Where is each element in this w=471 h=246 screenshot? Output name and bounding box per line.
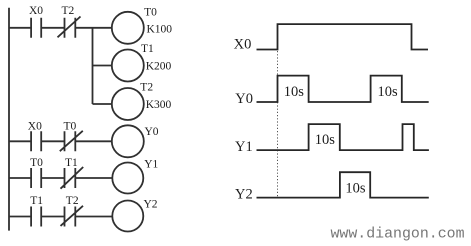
- waveform Y2: [257, 172, 429, 197]
- wire rung1 contact to coil T0: [75, 27, 112, 29]
- svg-text:T1: T1: [30, 195, 43, 207]
- svg-text:T2: T2: [62, 5, 75, 17]
- wire rung3 between contacts: [41, 177, 64, 179]
- timer coil T1: [112, 50, 144, 82]
- svg-text:X0: X0: [28, 120, 42, 132]
- svg-text:X0: X0: [29, 5, 43, 17]
- wire rung2 rail to contact X0: [9, 140, 31, 142]
- svg-text:Y0: Y0: [145, 126, 159, 138]
- svg-text:K100: K100: [147, 24, 173, 36]
- wire branch to coil T2: [93, 103, 112, 105]
- svg-text:Y1: Y1: [144, 159, 158, 171]
- wire rung2 between contacts: [41, 140, 64, 142]
- output coil Y2: [112, 201, 143, 232]
- svg-text:T1: T1: [65, 157, 78, 169]
- contact T1 (rung3, NC): [61, 167, 84, 189]
- svg-text:Y2: Y2: [235, 186, 253, 202]
- contact T1 (rung4, NO): [31, 207, 41, 227]
- waveform Y1: [257, 124, 429, 150]
- timer coil T0: [112, 12, 144, 44]
- contact T0 (rung2, NC): [60, 131, 83, 152]
- contact X0 (rung2, NO): [31, 131, 41, 151]
- svg-text:www.diangon.com: www.diangon.com: [331, 227, 465, 243]
- waveform Y0: [257, 76, 429, 102]
- svg-text:10s: 10s: [345, 180, 366, 196]
- wire rung3 rail to contact T0: [9, 177, 31, 179]
- svg-text:X0: X0: [234, 37, 252, 53]
- svg-text:T1: T1: [141, 43, 154, 55]
- svg-text:10s: 10s: [284, 84, 305, 100]
- svg-text:T2: T2: [140, 81, 153, 93]
- contact T2 (rung1, NC): [58, 17, 81, 38]
- svg-text:Y2: Y2: [144, 199, 158, 211]
- wire branch to coil T1: [93, 65, 112, 67]
- branch wire vertical: [92, 28, 94, 104]
- wire rung4 between contacts: [41, 216, 64, 218]
- wire rung4 rail to contact T1: [9, 216, 31, 218]
- left power rail: [8, 8, 10, 231]
- svg-text:10s: 10s: [378, 84, 399, 100]
- svg-text:T0: T0: [64, 120, 77, 132]
- svg-text:10s: 10s: [315, 132, 336, 148]
- svg-text:K200: K200: [146, 61, 172, 73]
- wire rung3 contact to coil Y1: [75, 177, 112, 179]
- wire rung2 contact to coil Y0: [75, 140, 112, 142]
- svg-text:T0: T0: [30, 157, 43, 169]
- svg-text:T0: T0: [144, 6, 157, 18]
- timing start dotted line: [277, 51, 279, 198]
- svg-text:K300: K300: [146, 99, 172, 111]
- output coil Y0: [112, 125, 144, 157]
- wire rung1 between contacts: [41, 27, 64, 29]
- waveform X0: [257, 24, 429, 49]
- output coil Y1: [112, 163, 143, 194]
- timer coil T2: [112, 88, 144, 120]
- svg-text:Y1: Y1: [235, 139, 253, 155]
- svg-text:Y0: Y0: [235, 91, 253, 107]
- svg-text:T2: T2: [66, 195, 79, 207]
- wire rung4 contact to coil Y2: [75, 216, 112, 218]
- contact T0 (rung3, NO): [31, 168, 41, 188]
- wire rung1 rail to contact X0: [9, 27, 31, 29]
- contact X0 (rung1, NO): [31, 18, 41, 38]
- contact T2 (rung4, NC): [61, 206, 84, 227]
